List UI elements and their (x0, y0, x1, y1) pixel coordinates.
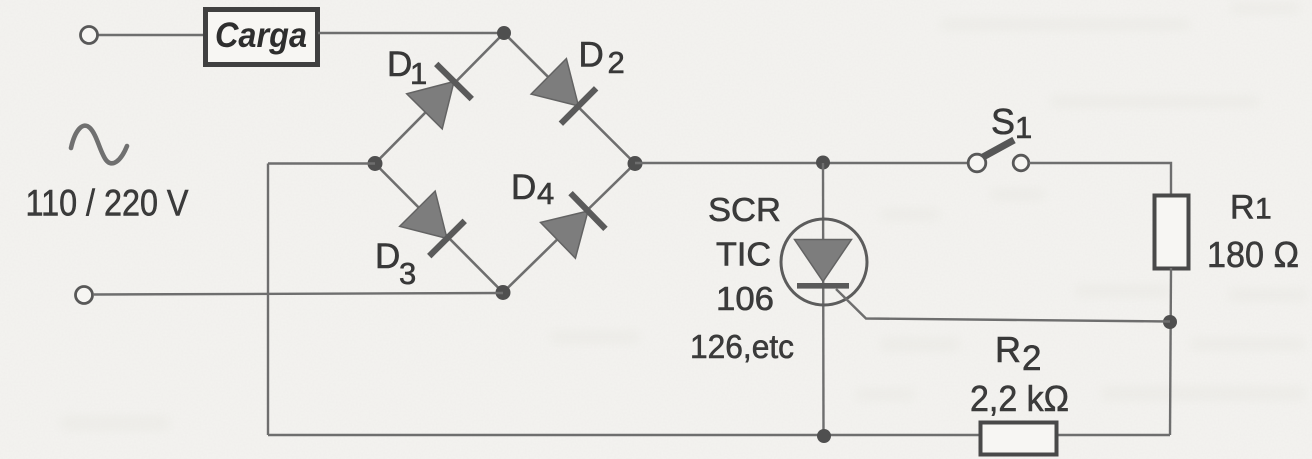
wire bottom terminal to bridge bottom node (93, 293, 503, 295)
svg-text:3: 3 (399, 256, 416, 291)
AC sine symbol (71, 126, 127, 164)
SCR gate wire (836, 289, 1170, 322)
node bridge left (368, 156, 383, 171)
wire left rail down (267, 164, 269, 436)
wire R1 bottom to right rail (1170, 268, 1171, 435)
label R2 (995, 329, 1041, 378)
diode D3 (400, 191, 467, 258)
wire bridge right node to switch (635, 162, 969, 164)
label D3 (375, 237, 416, 291)
label D1 (387, 45, 427, 91)
svg-text:R: R (995, 329, 1021, 370)
SCR triangle (795, 240, 852, 282)
svg-text:1: 1 (1255, 193, 1272, 226)
svg-text:2: 2 (608, 45, 625, 80)
svg-text:126,etc: 126,etc (690, 328, 794, 365)
SCR cathode bar (797, 283, 849, 289)
AC source terminal (bottom) (76, 287, 93, 304)
label S1 (991, 101, 1032, 145)
node SCR anode junction (816, 156, 830, 170)
switch S1 (968, 140, 1029, 172)
SCR vertical wire (822, 163, 825, 436)
svg-text:4: 4 (537, 176, 554, 211)
svg-text:110 / 220 V: 110 / 220 V (26, 183, 189, 224)
node SCR cathode junction (bottom rail) (817, 429, 831, 443)
resistor R2 (981, 423, 1057, 455)
SCR U1 circle (781, 219, 867, 305)
svg-text:D: D (387, 45, 412, 84)
label R1 (1230, 189, 1272, 227)
diode D4 (540, 191, 607, 258)
node gate junction (1163, 315, 1177, 329)
svg-text:1: 1 (1015, 110, 1032, 145)
svg-text:1: 1 (410, 56, 427, 91)
wire load box to bridge top node (318, 32, 504, 34)
node bridge bottom (496, 285, 511, 300)
diode D1 (407, 62, 474, 129)
diode D2 (531, 59, 598, 126)
svg-text:D: D (511, 168, 536, 207)
wire bridge arm top-left (375, 33, 504, 164)
svg-text:Carga: Carga (215, 16, 307, 55)
svg-text:D: D (579, 36, 604, 75)
label D4 (511, 168, 554, 211)
AC source terminal (top) (81, 27, 98, 44)
wire bottom rail (268, 434, 1170, 436)
svg-text:S: S (991, 101, 1015, 142)
svg-text:SCR: SCR (708, 191, 781, 228)
svg-text:TIC: TIC (716, 236, 771, 273)
node bridge right (628, 156, 643, 171)
wire bridge arm bottom-left (375, 164, 503, 293)
load box Carga (206, 10, 318, 65)
svg-text:180 Ω: 180 Ω (1207, 234, 1299, 275)
wire bridge left node to left rail (268, 162, 375, 164)
wire switch to top-right corner (1029, 163, 1171, 196)
wire bridge arm bottom-right (503, 164, 635, 293)
svg-text:R: R (1230, 189, 1255, 227)
wire bridge arm top-right (504, 33, 635, 164)
svg-text:2: 2 (1022, 339, 1041, 378)
svg-text:2,2 kΩ: 2,2 kΩ (970, 378, 1069, 419)
wire top terminal to load (97, 34, 206, 36)
svg-text:D: D (375, 237, 400, 276)
label D2 (579, 36, 625, 81)
node bridge top (497, 26, 511, 40)
svg-text:106: 106 (716, 280, 774, 317)
resistor R1 (1155, 196, 1189, 269)
